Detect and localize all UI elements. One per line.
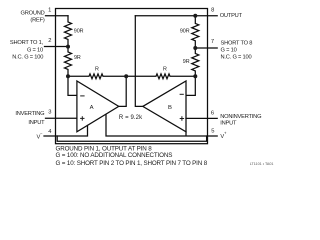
svg-text:SHORT TO 8: SHORT TO 8 bbox=[221, 41, 253, 47]
svg-text:GROUND: GROUND bbox=[21, 11, 45, 17]
svg-text:B: B bbox=[168, 105, 172, 111]
svg-text:INPUT: INPUT bbox=[220, 121, 237, 127]
svg-text:G = 10: G = 10 bbox=[27, 47, 43, 53]
svg-text:G = 10: SHORT PIN 2 TO PIN 1,: G = 10: SHORT PIN 2 TO PIN 1, SHORT PIN … bbox=[56, 160, 208, 167]
svg-text:(REF): (REF) bbox=[30, 17, 44, 23]
svg-text:9R: 9R bbox=[183, 59, 190, 65]
svg-text:G = 100: NO ADDITIONAL CONNECT: G = 100: NO ADDITIONAL CONNECTIONS bbox=[56, 152, 173, 159]
svg-text:INVERTING: INVERTING bbox=[15, 111, 44, 117]
svg-text:1: 1 bbox=[48, 7, 51, 13]
svg-text:R: R bbox=[95, 66, 99, 72]
svg-text:5: 5 bbox=[211, 128, 214, 134]
svg-text:G = 10: G = 10 bbox=[221, 48, 237, 54]
svg-text:R = 9.2k: R = 9.2k bbox=[119, 115, 143, 121]
svg-text:N.C. G = 100: N.C. G = 100 bbox=[12, 55, 43, 61]
svg-text:7: 7 bbox=[211, 39, 214, 45]
svg-text:A: A bbox=[90, 105, 94, 111]
svg-text:R: R bbox=[163, 66, 167, 72]
svg-text:OUTPUT: OUTPUT bbox=[220, 13, 243, 19]
svg-text:9R: 9R bbox=[74, 55, 81, 61]
svg-text:2: 2 bbox=[48, 38, 51, 44]
svg-text:3: 3 bbox=[48, 109, 51, 115]
svg-text:6: 6 bbox=[211, 111, 214, 117]
svg-text:N.C. G = 100: N.C. G = 100 bbox=[221, 55, 252, 61]
svg-text:90R: 90R bbox=[74, 28, 84, 34]
svg-text:90R: 90R bbox=[180, 29, 190, 35]
svg-text:LT1101 • TA01: LT1101 • TA01 bbox=[250, 162, 274, 166]
svg-text:8: 8 bbox=[211, 7, 214, 13]
svg-text:NONINVERTING: NONINVERTING bbox=[220, 114, 261, 120]
svg-text:INPUT: INPUT bbox=[28, 120, 45, 126]
svg-text:SHORT TO 1,: SHORT TO 1, bbox=[10, 40, 44, 46]
